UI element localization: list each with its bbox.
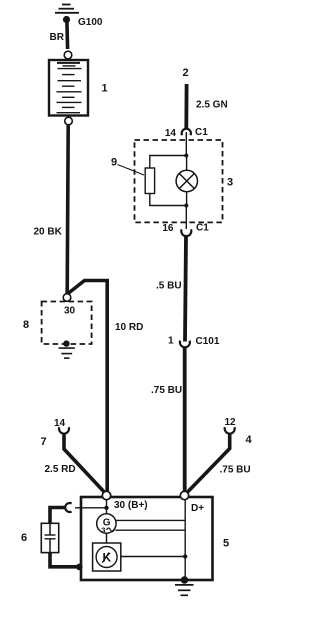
wire .75 BU: [183, 348, 187, 491]
svg-text:6: 6: [21, 532, 27, 544]
junction dot B+: [104, 506, 108, 510]
svg-text:BR: BR: [50, 32, 65, 43]
internal wire K to D+ line: [121, 556, 185, 558]
wire BR: [65, 17, 69, 49]
junction dot D+ line: [183, 554, 187, 558]
regulator K box: [93, 543, 121, 571]
internal wire D+ vertical: [184, 497, 186, 579]
junction dot capacitor to case: [76, 564, 83, 571]
internal wire G lower to D+ line: [115, 529, 185, 531]
indicator lamp: [176, 170, 197, 191]
wire 10 RD: [68, 281, 107, 492]
svg-text:C1: C1: [196, 223, 209, 234]
ground dot box 5: [181, 576, 189, 584]
svg-text:14: 14: [165, 128, 177, 139]
junction dot cluster top: [184, 154, 188, 158]
leader line for 9: [118, 165, 145, 176]
connector arc pin 12: [225, 427, 235, 433]
terminal circle D+: [180, 491, 188, 499]
wire capacitor bottom: [50, 553, 80, 567]
svg-text:2: 2: [183, 67, 189, 79]
instrument cluster box 3 (dashed): [135, 140, 223, 222]
connector arc capacitor: [65, 503, 71, 512]
internal wire B+ to capacitor connector: [75, 507, 107, 509]
svg-text:16: 16: [162, 223, 174, 234]
ground symbol box 8: [59, 348, 75, 358]
svg-text:9: 9: [111, 157, 117, 169]
capacitor 6: [41, 523, 58, 552]
wire .5 BU: [185, 236, 186, 342]
svg-text:7: 7: [41, 436, 47, 448]
terminal circle box 8 pin 30: [63, 294, 71, 302]
internal wire G to regulator K: [106, 533, 108, 543]
internal wire B+ down to G: [106, 497, 108, 514]
svg-text:3: 3: [227, 177, 233, 189]
splice dot G100: [63, 16, 70, 23]
svg-text:30: 30: [64, 306, 76, 317]
ground G100: [55, 5, 79, 13]
wire cluster exit: [185, 206, 187, 230]
wire to resistor branch: [150, 156, 187, 169]
svg-text:C1: C1: [195, 127, 208, 138]
resistor 9: [145, 168, 154, 194]
svg-text:.75 BU: .75 BU: [151, 385, 182, 396]
svg-text:12: 12: [224, 417, 236, 428]
connector C1 pin 16 arc: [181, 229, 191, 236]
connector C101 arc: [180, 341, 190, 348]
svg-text:C101: C101: [196, 336, 220, 347]
battery 1: [49, 60, 88, 116]
svg-text:K: K: [102, 551, 111, 565]
junction dot cluster bottom: [184, 204, 188, 208]
wire 2.5 RD: [64, 435, 104, 493]
svg-text:D+: D+: [191, 503, 204, 514]
ground dot box 8: [63, 340, 69, 346]
generator G circle: [97, 514, 116, 533]
wire .75 BU right: [188, 435, 230, 493]
svg-text:.75 BU: .75 BU: [220, 465, 251, 476]
wire capacitor top: [50, 508, 65, 524]
svg-text:G100: G100: [78, 17, 103, 28]
regulator arrow mark: [102, 553, 109, 563]
svg-text:10 RD: 10 RD: [115, 322, 143, 333]
terminal circle battery top: [64, 51, 72, 59]
wire 20 BK: [67, 125, 68, 294]
connector arc pin 14: [59, 427, 69, 433]
wire into cluster: [185, 132, 187, 156]
svg-text:4: 4: [246, 434, 253, 446]
wire lamp bottom: [186, 192, 188, 206]
svg-text:14: 14: [54, 418, 66, 429]
svg-text:3: 3: [101, 526, 105, 535]
svg-text:5: 5: [223, 538, 229, 550]
generator box 5: [81, 497, 213, 580]
wire lamp top: [186, 156, 188, 171]
svg-text:8: 8: [23, 319, 29, 331]
svg-text:2.5 GN: 2.5 GN: [196, 100, 228, 111]
ground symbol under box 5: [175, 585, 194, 595]
svg-text:1: 1: [168, 336, 174, 347]
wire 2.5 GN: [184, 84, 188, 130]
svg-text:.5 BU: .5 BU: [156, 281, 182, 292]
svg-text:1: 1: [102, 83, 108, 95]
svg-text:2.5 RD: 2.5 RD: [45, 464, 76, 475]
svg-text:30 (B+): 30 (B+): [114, 500, 148, 511]
wire resistor bottom branch: [150, 194, 187, 206]
terminal circle battery bottom: [65, 117, 73, 125]
box 8 (dashed): [42, 302, 92, 345]
terminal circle 30(B+): [102, 491, 110, 499]
svg-text:20 BK: 20 BK: [34, 227, 63, 238]
connector C1 pin 14 arc: [182, 129, 191, 135]
internal wire G upper to D+ line: [116, 519, 186, 521]
regulator K circle: [96, 547, 117, 568]
